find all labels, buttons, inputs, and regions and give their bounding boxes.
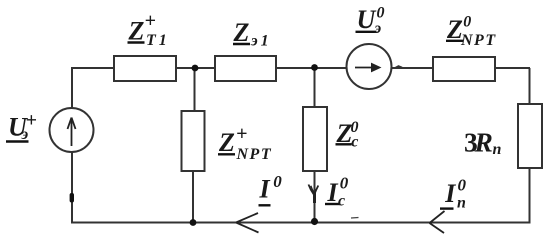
svg-text:n: n: [493, 141, 502, 158]
svg-text:0: 0: [273, 172, 282, 191]
svg-text:э: э: [374, 20, 382, 37]
svg-text:э1: э1: [250, 33, 272, 50]
svg-text:0: 0: [458, 175, 467, 194]
svg-text:U: U: [357, 5, 377, 34]
svg-text:R: R: [474, 126, 493, 157]
svg-text:I: I: [444, 179, 456, 208]
svg-text:T1: T1: [146, 32, 170, 49]
svg-text:+: +: [236, 123, 247, 145]
svg-text:NPT: NPT: [236, 146, 273, 163]
svg-text:c: c: [338, 193, 345, 210]
svg-text:+: +: [145, 10, 156, 32]
svg-text:0: 0: [340, 174, 349, 193]
svg-text:Z: Z: [218, 128, 235, 157]
svg-text:n: n: [457, 195, 466, 212]
svg-text:NPT: NPT: [460, 32, 497, 49]
svg-text:Z: Z: [128, 17, 145, 46]
svg-text:0: 0: [463, 14, 471, 31]
svg-text:0: 0: [377, 5, 385, 22]
svg-text:I: I: [259, 175, 271, 204]
svg-text:Z: Z: [233, 18, 250, 47]
svg-text:I: I: [327, 178, 339, 207]
svg-text:э: э: [21, 126, 29, 143]
svg-text:c: c: [351, 134, 358, 151]
